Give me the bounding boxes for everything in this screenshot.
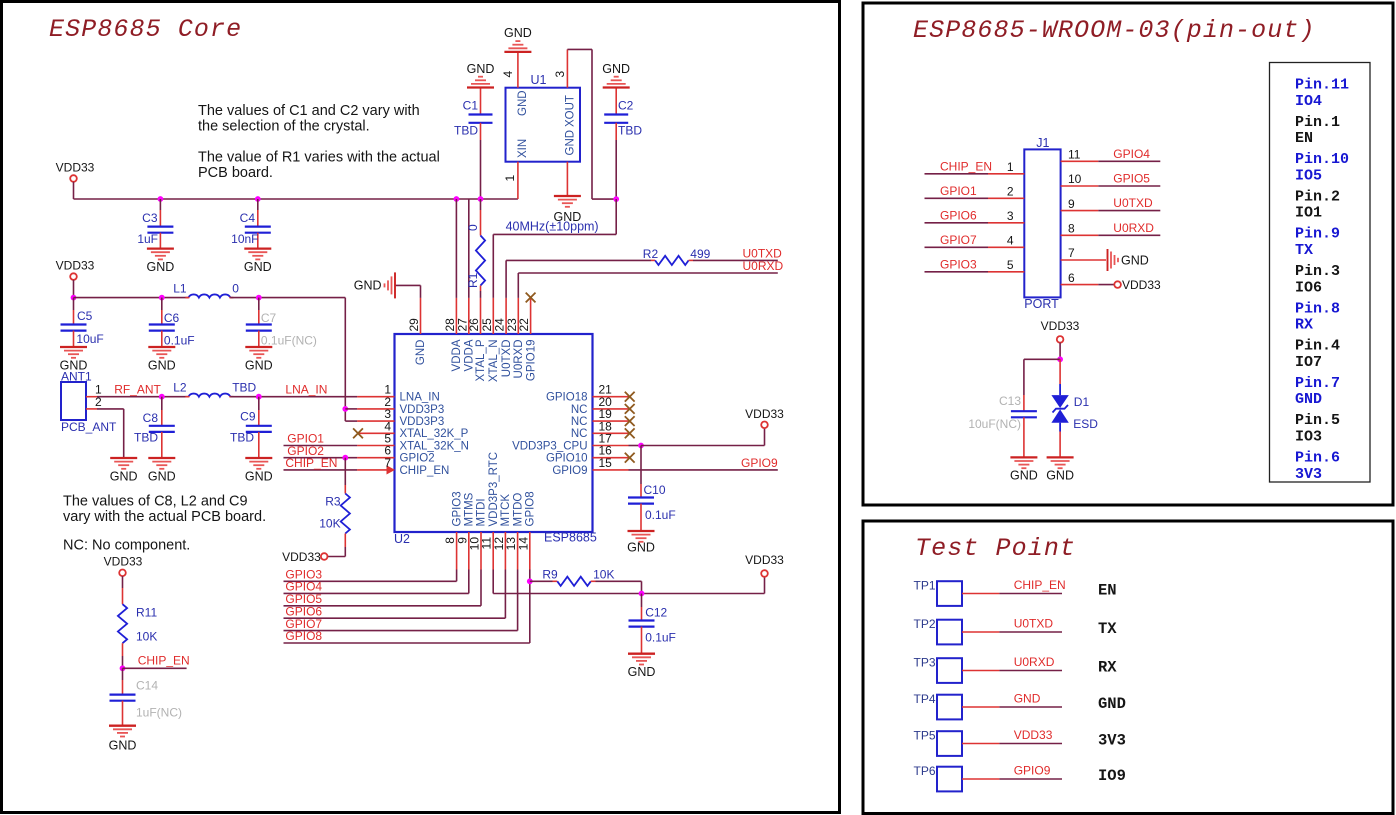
svg-text:GND: GND [517, 90, 529, 116]
svg-text:C10: C10 [644, 483, 666, 497]
svg-text:EN: EN [1295, 130, 1313, 147]
svg-text:GND: GND [467, 62, 495, 76]
svg-text:GND: GND [148, 358, 176, 372]
svg-text:MTDI: MTDI [476, 498, 488, 526]
svg-text:Pin.6: Pin.6 [1295, 450, 1340, 467]
svg-text:VDD33: VDD33 [1041, 319, 1080, 333]
svg-text:15: 15 [599, 456, 613, 470]
svg-text:GND: GND [628, 665, 656, 679]
svg-text:GND: GND [1046, 469, 1074, 483]
svg-text:1uF: 1uF [137, 232, 158, 246]
svg-text:4: 4 [1007, 234, 1014, 248]
svg-text:GND: GND [354, 279, 382, 293]
svg-text:GPIO18: GPIO18 [546, 392, 588, 404]
svg-text:PORT: PORT [1024, 297, 1059, 311]
svg-text:TP3: TP3 [914, 656, 936, 670]
svg-text:ESP8685: ESP8685 [544, 531, 597, 545]
svg-text:RX: RX [1295, 317, 1313, 334]
svg-text:3V3: 3V3 [1295, 466, 1322, 483]
svg-text:Pin.3: Pin.3 [1295, 263, 1340, 280]
svg-text:U0TXD: U0TXD [1113, 196, 1153, 210]
svg-text:14: 14 [516, 537, 530, 551]
svg-text:7: 7 [384, 456, 391, 470]
svg-text:GND: GND [245, 358, 273, 372]
svg-text:4: 4 [501, 71, 515, 78]
svg-text:GND: GND [110, 469, 138, 483]
svg-text:CHIP_EN: CHIP_EN [138, 653, 190, 667]
svg-text:TBD: TBD [618, 123, 642, 137]
svg-text:10uF: 10uF [76, 332, 103, 346]
svg-text:3V3: 3V3 [1098, 732, 1126, 750]
svg-text:XIN: XIN [517, 139, 529, 158]
svg-text:GPIO8: GPIO8 [525, 491, 537, 526]
svg-text:10uF(NC): 10uF(NC) [968, 417, 1021, 431]
svg-text:C4: C4 [240, 211, 256, 225]
svg-text:GND: GND [602, 62, 630, 76]
svg-text:EN: EN [1098, 582, 1117, 600]
svg-text:VDD33: VDD33 [1122, 278, 1161, 292]
svg-text:The values of C8, L2 and C9: The values of C8, L2 and C9 [63, 494, 248, 510]
svg-text:U0TXD: U0TXD [743, 246, 783, 260]
svg-text:VDD33: VDD33 [745, 553, 784, 567]
svg-text:NC: No component.: NC: No component. [63, 538, 190, 554]
svg-text:NC: NC [571, 428, 588, 440]
svg-text:1: 1 [503, 175, 517, 182]
svg-text:R3: R3 [325, 495, 341, 509]
svg-text:10nF: 10nF [231, 232, 258, 246]
svg-text:8: 8 [1068, 222, 1075, 236]
svg-text:GND: GND [1098, 695, 1126, 713]
svg-text:Pin.1: Pin.1 [1295, 114, 1340, 131]
svg-text:0: 0 [466, 224, 480, 231]
svg-text:TBD: TBD [232, 381, 256, 395]
svg-text:GPIO7: GPIO7 [940, 233, 977, 247]
svg-text:7: 7 [1068, 246, 1075, 260]
svg-text:IO3: IO3 [1295, 429, 1322, 446]
svg-text:10K: 10K [319, 517, 340, 531]
svg-text:TBD: TBD [454, 123, 478, 137]
svg-text:0: 0 [232, 282, 239, 296]
svg-text:U0RXD: U0RXD [743, 259, 784, 273]
svg-text:C8: C8 [143, 411, 159, 425]
svg-text:GND: GND [627, 540, 655, 554]
svg-text:GPIO5: GPIO5 [1113, 172, 1150, 186]
svg-text:VDDA: VDDA [464, 339, 476, 371]
svg-text:499: 499 [690, 247, 710, 261]
svg-text:VDD33: VDD33 [1014, 728, 1053, 742]
svg-text:1: 1 [1007, 160, 1014, 174]
svg-text:XTAL_32K_N: XTAL_32K_N [400, 440, 469, 452]
svg-text:GPIO3: GPIO3 [451, 491, 463, 526]
svg-text:C5: C5 [77, 309, 93, 323]
svg-text:D1: D1 [1074, 395, 1090, 409]
svg-text:VDD33: VDD33 [745, 407, 784, 421]
svg-text:10K: 10K [136, 630, 157, 644]
svg-text:VDD3P3_CPU: VDD3P3_CPU [512, 440, 587, 452]
svg-text:VDD33: VDD33 [56, 259, 95, 273]
svg-text:CHIP_EN: CHIP_EN [285, 456, 337, 470]
svg-text:GND: GND [148, 469, 176, 483]
svg-text:LNA_IN: LNA_IN [400, 392, 440, 404]
svg-text:TP1: TP1 [914, 579, 936, 593]
svg-text:U0RXD: U0RXD [1113, 221, 1154, 235]
svg-text:GPIO2: GPIO2 [400, 453, 435, 465]
svg-text:U0RXD: U0RXD [513, 340, 525, 379]
svg-text:9: 9 [1068, 197, 1075, 211]
svg-text:C12: C12 [645, 606, 667, 620]
svg-text:L1: L1 [173, 282, 187, 296]
svg-text:MTDO: MTDO [512, 493, 524, 527]
svg-text:MTMS: MTMS [464, 492, 476, 526]
svg-text:C2: C2 [618, 99, 634, 113]
svg-text:GND: GND [564, 130, 576, 156]
svg-text:TP2: TP2 [914, 617, 936, 631]
svg-text:C13: C13 [999, 394, 1021, 408]
svg-text:10K: 10K [593, 568, 614, 582]
svg-text:GND: GND [1010, 469, 1038, 483]
svg-text:TX: TX [1295, 242, 1313, 259]
svg-text:VDD33: VDD33 [56, 161, 95, 175]
svg-text:CHIP_EN: CHIP_EN [1014, 578, 1066, 592]
svg-text:GND: GND [504, 26, 532, 40]
svg-text:2: 2 [1007, 185, 1014, 199]
svg-text:3: 3 [1007, 209, 1014, 223]
svg-text:XTAL_32K_P: XTAL_32K_P [400, 428, 469, 440]
svg-text:Pin.2: Pin.2 [1295, 188, 1340, 205]
svg-text:IO5: IO5 [1295, 167, 1322, 184]
svg-text:C1: C1 [463, 99, 479, 113]
svg-text:R1: R1 [466, 272, 480, 288]
svg-text:TBD: TBD [230, 430, 254, 444]
svg-text:VDD33: VDD33 [104, 554, 143, 568]
svg-text:vary with the actual PCB board: vary with the actual PCB board. [63, 509, 266, 525]
svg-text:0.1uF(NC): 0.1uF(NC) [261, 334, 317, 348]
svg-text:PCB board.: PCB board. [198, 165, 273, 181]
svg-text:CHIP_EN: CHIP_EN [400, 465, 450, 477]
svg-text:MTCK: MTCK [500, 494, 512, 527]
svg-text:29: 29 [407, 318, 421, 332]
svg-text:TP4: TP4 [914, 692, 936, 706]
svg-text:Pin.4: Pin.4 [1295, 338, 1340, 355]
svg-text:C7: C7 [261, 311, 277, 325]
svg-text:10: 10 [1068, 172, 1082, 186]
svg-text:ANT1: ANT1 [61, 369, 92, 383]
svg-text:22: 22 [517, 318, 531, 332]
svg-text:U0TXD: U0TXD [501, 340, 513, 378]
svg-text:TP5: TP5 [914, 729, 936, 743]
svg-text:GPIO1: GPIO1 [940, 184, 977, 198]
svg-text:Pin.5: Pin.5 [1295, 412, 1340, 429]
svg-text:GND: GND [244, 260, 272, 274]
svg-text:U0RXD: U0RXD [1014, 655, 1055, 669]
svg-text:C14: C14 [136, 678, 158, 692]
svg-text:GND: GND [1121, 253, 1149, 267]
svg-text:ESP8685-WROOM-03(pin-out): ESP8685-WROOM-03(pin-out) [913, 16, 1316, 45]
svg-text:Pin.11: Pin.11 [1295, 77, 1349, 94]
svg-text:GPIO6: GPIO6 [940, 208, 977, 222]
svg-text:3: 3 [553, 71, 567, 78]
svg-text:GPIO8: GPIO8 [285, 629, 322, 643]
svg-text:GPIO9: GPIO9 [552, 465, 587, 477]
svg-text:6: 6 [1068, 271, 1075, 285]
svg-text:5: 5 [1007, 258, 1014, 272]
svg-text:R11: R11 [136, 606, 157, 620]
svg-text:Pin.9: Pin.9 [1295, 226, 1340, 243]
svg-text:TBD: TBD [134, 431, 158, 445]
svg-text:GND: GND [415, 340, 427, 366]
svg-text:the selection of the crystal.: the selection of the crystal. [198, 119, 370, 135]
svg-text:U0TXD: U0TXD [1014, 617, 1054, 631]
svg-text:Pin.7: Pin.7 [1295, 375, 1340, 392]
svg-text:XTAL_P: XTAL_P [475, 339, 487, 381]
svg-text:IO9: IO9 [1098, 767, 1126, 785]
svg-text:VDD33: VDD33 [282, 550, 321, 564]
svg-text:The value of R1 varies with th: The value of R1 varies with the actual [198, 149, 440, 165]
svg-text:XTAL_N: XTAL_N [488, 340, 500, 383]
svg-text:GND: GND [147, 260, 175, 274]
svg-text:VDDA: VDDA [451, 339, 463, 371]
svg-text:GND: GND [109, 739, 137, 753]
svg-text:L2: L2 [173, 381, 187, 395]
svg-text:J1: J1 [1036, 136, 1049, 150]
svg-text:IO7: IO7 [1295, 354, 1322, 371]
svg-text:GPIO9: GPIO9 [1014, 764, 1051, 778]
svg-text:1uF(NC): 1uF(NC) [136, 706, 182, 720]
svg-text:0.1uF: 0.1uF [645, 631, 676, 645]
svg-text:RF_ANT: RF_ANT [114, 383, 161, 397]
svg-text:40MHz(±10ppm): 40MHz(±10ppm) [506, 220, 599, 234]
svg-text:R9: R9 [542, 568, 558, 582]
svg-text:GND: GND [1014, 692, 1041, 706]
svg-text:R2: R2 [643, 247, 659, 261]
svg-text:Test Point: Test Point [915, 534, 1076, 563]
svg-text:U1: U1 [531, 73, 547, 87]
svg-text:TX: TX [1098, 620, 1117, 638]
svg-text:Pin.10: Pin.10 [1295, 151, 1349, 168]
svg-text:GPIO19: GPIO19 [525, 340, 537, 382]
svg-text:0.1uF: 0.1uF [645, 508, 676, 522]
svg-text:GPIO10: GPIO10 [546, 453, 588, 465]
svg-text:NC: NC [571, 416, 588, 428]
svg-text:IO4: IO4 [1295, 93, 1322, 110]
svg-text:GPIO4: GPIO4 [1113, 147, 1150, 161]
svg-text:VDD3P3_RTC: VDD3P3_RTC [488, 452, 500, 527]
svg-text:GND: GND [245, 469, 273, 483]
svg-text:C6: C6 [164, 311, 180, 325]
svg-text:NC: NC [571, 404, 588, 416]
svg-text:ESP8685 Core: ESP8685 Core [49, 15, 242, 44]
svg-text:GPIO9: GPIO9 [741, 456, 778, 470]
svg-text:C3: C3 [142, 211, 158, 225]
svg-text:GPIO3: GPIO3 [940, 257, 977, 271]
svg-text:IO6: IO6 [1295, 279, 1322, 296]
svg-text:Pin.8: Pin.8 [1295, 300, 1340, 317]
svg-text:CHIP_EN: CHIP_EN [940, 159, 992, 173]
svg-text:The values of C1 and C2 vary w: The values of C1 and C2 vary with [198, 103, 420, 119]
svg-text:C9: C9 [240, 409, 256, 423]
svg-text:0.1uF: 0.1uF [164, 334, 195, 348]
svg-text:VDD3P3: VDD3P3 [400, 416, 445, 428]
svg-text:GND: GND [1295, 391, 1322, 408]
svg-text:ESD: ESD [1073, 417, 1098, 431]
svg-text:IO1: IO1 [1295, 205, 1322, 222]
svg-text:U2: U2 [394, 532, 410, 546]
svg-text:PCB_ANT: PCB_ANT [61, 420, 117, 434]
svg-text:RX: RX [1098, 659, 1117, 677]
svg-text:TP6: TP6 [914, 764, 936, 778]
svg-text:VDD3P3: VDD3P3 [400, 404, 445, 416]
svg-text:11: 11 [1068, 148, 1081, 162]
svg-text:LNA_IN: LNA_IN [285, 383, 327, 397]
svg-text:XOUT: XOUT [564, 95, 576, 127]
